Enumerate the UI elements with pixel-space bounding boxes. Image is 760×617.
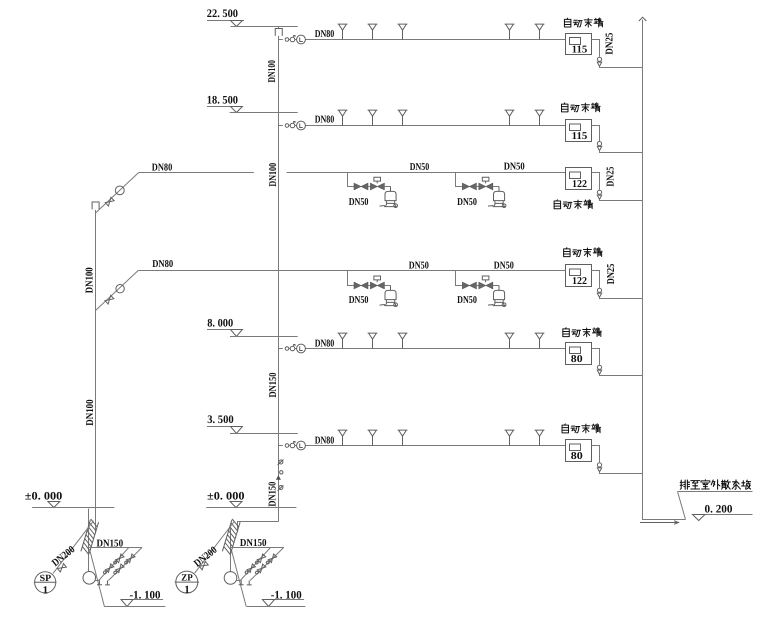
- riser R1 DN100 (left): [89, 210, 96, 572]
- svg-text:DN25: DN25: [606, 264, 617, 285]
- svg-text:0. 200: 0. 200: [705, 503, 733, 515]
- sprinkler B2-1: [338, 110, 348, 125]
- svg-text:115: 115: [572, 131, 588, 142]
- end box module B4: [564, 248, 603, 257]
- valve m5: [255, 554, 266, 565]
- pipe cap right a: [239, 580, 244, 584]
- svg-text:122: 122: [572, 276, 587, 287]
- water pump adapter SP1: [34, 572, 57, 597]
- test valve B3: [597, 190, 601, 199]
- sprinkler B2-3: [398, 110, 408, 125]
- branch B1 pipe DN80: [305, 39, 565, 41]
- wall sleeve left: [81, 519, 99, 555]
- svg-text:DN100: DN100: [85, 399, 96, 425]
- svg-text:DN80: DN80: [315, 29, 335, 40]
- pipe DN200 diagonal left: [53, 521, 94, 574]
- level mark -1.100 right: [247, 590, 306, 607]
- drain arrow head: [639, 17, 646, 21]
- branch B5 pipe DN80: [305, 348, 565, 350]
- branch B6 pipe DN80: [305, 445, 565, 447]
- pump manifold DN150 right: [231, 547, 284, 549]
- valve m6: [245, 564, 256, 575]
- valve m8: [255, 564, 266, 575]
- wall sleeve right: [222, 519, 240, 555]
- valve m7: [266, 554, 277, 565]
- svg-text:DN150: DN150: [268, 482, 279, 507]
- sprinkler B1-5: [535, 24, 545, 39]
- pipe DN200 diagonal right: [195, 522, 235, 574]
- test valve B1: [597, 57, 601, 66]
- svg-text:DN25: DN25: [605, 33, 616, 55]
- svg-text:DN200: DN200: [192, 545, 219, 570]
- test valve B5: [597, 365, 601, 374]
- svg-text:DN80: DN80: [315, 339, 335, 350]
- test valve B6: [597, 463, 601, 472]
- sprinkler B2-4: [505, 110, 515, 125]
- pump circle left: [83, 572, 96, 585]
- drain slope arrow: [640, 521, 679, 525]
- pipe cap left b: [105, 581, 110, 585]
- svg-text:ZP: ZP: [181, 574, 193, 584]
- sprinkler B5-5: [535, 333, 545, 348]
- sprinkler B1-4: [505, 24, 515, 39]
- valve m4: [113, 564, 124, 575]
- sprinkler B5-1: [338, 333, 348, 348]
- svg-text:DN50: DN50: [504, 161, 525, 172]
- drain pipe (right vertical): [643, 20, 686, 520]
- pipe cap right b: [247, 581, 252, 585]
- sprinkler B6-1: [338, 430, 348, 445]
- test assembly B3-2: [456, 173, 506, 208]
- sprinkler B5-4: [505, 333, 515, 348]
- auto exhaust valve on riser R1 top: [92, 202, 99, 209]
- label 自动末端 B2: [562, 103, 601, 112]
- svg-text:115: 115: [572, 45, 588, 56]
- label 排至室外散水坡: [678, 480, 753, 520]
- test valve B2: [597, 142, 601, 151]
- level mark 18.500: [207, 94, 298, 112]
- riser R1 connection diagonal B3: [96, 173, 139, 214]
- svg-text:DN100: DN100: [268, 163, 279, 187]
- pump suction line left: [90, 551, 104, 607]
- sprinkler B1-1: [338, 24, 348, 39]
- test assembly B4-2: [456, 271, 506, 307]
- svg-text:DN25: DN25: [605, 167, 616, 187]
- level mark 22.500: [207, 8, 298, 26]
- test assembly B4-1: [348, 271, 398, 307]
- riser R2 bottom offset to pump inlet: [231, 522, 279, 572]
- valve m2: [103, 564, 114, 575]
- svg-text:1: 1: [184, 584, 190, 596]
- valve on DN200 left: [57, 564, 66, 572]
- test valve B4: [597, 288, 601, 297]
- water pump adapter ZP1: [175, 571, 199, 596]
- outlet pipe B5: [592, 349, 600, 365]
- svg-text:80: 80: [571, 354, 583, 365]
- signal valve + flow indicator B1: [279, 35, 307, 44]
- pump suction line right: [232, 551, 247, 607]
- end test device box B1: [566, 34, 592, 55]
- level mark ±0.000 right: [206, 491, 296, 508]
- svg-text:DN100: DN100: [267, 60, 278, 83]
- outlet pipe B2: [592, 126, 600, 142]
- flow indicator on diagonal B4: [116, 285, 124, 293]
- valve m1: [113, 554, 124, 565]
- svg-text:122: 122: [572, 179, 587, 190]
- sprinkler B6-2: [368, 430, 378, 445]
- label 自动末端 B6: [562, 424, 601, 433]
- signal valve + flow indicator B6: [279, 441, 307, 450]
- end test device box B6: [566, 440, 592, 462]
- level mark ±0.000 left: [25, 491, 114, 508]
- svg-text:DN80: DN80: [152, 163, 173, 174]
- end box module B3: [554, 200, 593, 209]
- end test device box B2: [566, 120, 592, 142]
- sprinkler B5-2: [368, 333, 378, 348]
- level mark 0.200: [693, 503, 753, 520]
- sprinkler B6-5: [535, 430, 545, 445]
- svg-text:DN50: DN50: [349, 197, 369, 208]
- svg-text:DN50: DN50: [457, 197, 477, 208]
- svg-text:22. 500: 22. 500: [207, 8, 238, 20]
- svg-text:1: 1: [43, 584, 49, 596]
- svg-text:DN50: DN50: [410, 162, 429, 173]
- sprinkler B6-4: [505, 430, 515, 445]
- svg-text:±0. 000: ±0. 000: [207, 491, 245, 503]
- label 自动末端 B1: [564, 18, 603, 27]
- svg-text:DN150: DN150: [97, 539, 124, 550]
- svg-text:DN150: DN150: [268, 373, 279, 398]
- valve on diagonal B3: [105, 197, 114, 206]
- sprinkler B6-3: [398, 430, 408, 445]
- svg-text:±0. 000: ±0. 000: [25, 491, 63, 503]
- level mark 8.000: [207, 318, 298, 337]
- svg-text:DN50: DN50: [457, 295, 477, 306]
- branch B2 pipe DN80: [305, 125, 565, 127]
- svg-text:3. 500: 3. 500: [207, 414, 234, 426]
- svg-text:SP: SP: [40, 574, 52, 584]
- sprinkler B2-5: [535, 110, 545, 125]
- svg-text:DN200: DN200: [50, 544, 77, 569]
- riser R2 DN100/DN150 (center): [278, 27, 280, 522]
- level mark 3.500: [207, 414, 298, 433]
- pump circle right: [224, 572, 237, 585]
- branch B3 pipe right segment: [287, 172, 566, 174]
- end test device box B5: [566, 343, 592, 365]
- outlet pipe B1: [592, 40, 600, 57]
- svg-text:DN80: DN80: [315, 115, 335, 126]
- sprinkler B2-2: [368, 110, 378, 125]
- gauge on riser R2: [279, 460, 283, 464]
- branch B3 pipe left segment: [139, 172, 254, 174]
- sprinkler B1-3: [398, 24, 408, 39]
- signal valve + flow indicator B5: [279, 344, 307, 353]
- check valve on riser R2: [280, 471, 283, 474]
- svg-text:DN50: DN50: [349, 295, 369, 306]
- svg-text:18. 500: 18. 500: [207, 94, 238, 106]
- valve on diagonal B4: [105, 295, 114, 304]
- outlet pipe B6: [592, 446, 600, 463]
- svg-text:DN100: DN100: [85, 267, 96, 293]
- valve on DN200 right: [199, 561, 208, 569]
- sprinkler B1-2: [368, 24, 378, 39]
- riser R1 connection diagonal B4: [96, 271, 139, 311]
- valve m3: [124, 554, 135, 565]
- svg-text:8. 000: 8. 000: [207, 318, 233, 330]
- flow indicator on diagonal B3: [115, 186, 124, 195]
- sprinkler B5-3: [398, 333, 408, 348]
- svg-text:DN150: DN150: [240, 538, 267, 549]
- svg-text:DN50: DN50: [494, 260, 514, 271]
- signal valve + flow indicator B2: [279, 121, 307, 130]
- svg-text:DN50: DN50: [409, 260, 429, 271]
- label 自动末端 B5: [563, 328, 602, 337]
- branch B4 pipe: [138, 270, 565, 272]
- level mark -1.100 left: [104, 590, 165, 607]
- svg-text:80: 80: [571, 451, 583, 462]
- pump manifold DN150 left: [89, 547, 143, 549]
- svg-text:DN80: DN80: [315, 436, 335, 447]
- svg-text:DN80: DN80: [152, 259, 173, 270]
- auto exhaust valve on riser R2 top: [275, 29, 282, 36]
- test assembly B3-1: [348, 173, 398, 208]
- drain valve on riser R2: [279, 486, 283, 490]
- pipe cap left a: [97, 580, 102, 584]
